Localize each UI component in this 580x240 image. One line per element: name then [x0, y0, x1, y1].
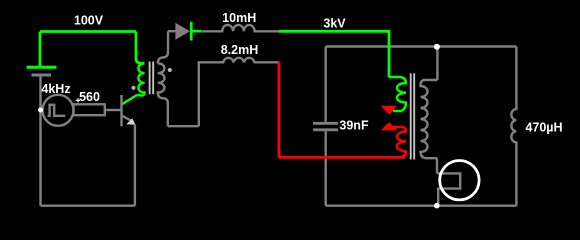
- wire top rail right section: [326, 45, 517, 47]
- wire T2 secondary top to rail: [436, 47, 438, 81]
- wire battery negative down: [39, 75, 41, 110]
- wire battery positive up: [39, 32, 42, 68]
- transistor Q1 emitter lead: [122, 115, 133, 121]
- diode D1 cathode bar: [190, 22, 193, 41]
- transformer T1 secondary winding (gray): [158, 63, 168, 126]
- capacitor C1 bottom lead: [325, 131, 327, 206]
- transistor Q1 emitter arrow: [126, 118, 135, 124]
- voltage source V1 100V bottom plate: [32, 74, 52, 77]
- capacitor C1 top plate: [313, 122, 338, 125]
- capacitor C1 bottom plate: [313, 128, 338, 131]
- wire left rail down: [39, 110, 41, 206]
- transformer T2 secondary winding (gray): [421, 80, 438, 158]
- label 3kV: [323, 17, 346, 31]
- transformer T2 core: [410, 73, 412, 159]
- label 8.2mH: [221, 43, 259, 57]
- capacitor C1 top lead: [325, 47, 327, 122]
- transistor Q1 base bar: [120, 95, 122, 126]
- wire rail down to transformer T1 primary: [136, 32, 145, 64]
- spark plug body circle: [440, 161, 479, 200]
- label 470uH: [525, 121, 562, 135]
- wire diode cathode: [191, 30, 201, 33]
- transformer T1 core: [149, 62, 151, 95]
- diode D1 triangle: [175, 23, 190, 40]
- spark plug electrode: [437, 173, 460, 205]
- square wave source VS2 circle: [43, 95, 74, 126]
- spark gap SG1 top arrow: [381, 106, 397, 115]
- inductor L1 10mH: [201, 25, 279, 31]
- inductor L3 470uH branch: [511, 47, 516, 206]
- label 100V: [74, 14, 104, 28]
- svg-text:8.2mH: 8.2mH: [221, 43, 259, 57]
- svg-text:4kHz: 4kHz: [41, 82, 70, 96]
- junction node bottom: [434, 203, 440, 209]
- svg-text:39nF: 39nF: [339, 119, 369, 133]
- svg-text:3kV: 3kV: [323, 17, 346, 31]
- inductor L2 8.2mH: [199, 58, 279, 126]
- transformer T1 secondary polarity dot: [168, 68, 172, 72]
- label 4kHz: [41, 82, 70, 96]
- square wave glyph: [48, 105, 66, 116]
- spark gap SG1 bottom arrow: [381, 122, 397, 130]
- junction node source left post: [38, 108, 43, 113]
- svg-text:100V: 100V: [74, 14, 104, 28]
- diode D1 anode lead: [168, 30, 175, 32]
- wire red from L2 down: [277, 62, 280, 158]
- wire emitter down: [134, 125, 136, 206]
- label 39nF: [339, 119, 369, 133]
- wire T1 primary to transistor collector: [122, 95, 137, 104]
- wire T1 secondary top to diode: [158, 31, 168, 63]
- svg-text:470µH: 470µH: [525, 121, 562, 135]
- label 10mH: [222, 11, 256, 25]
- wire 100V top rail: [40, 30, 136, 33]
- voltage source V1 100V top plate: [27, 66, 57, 69]
- svg-text:560: 560: [79, 90, 100, 104]
- wire resistor to base: [105, 109, 121, 111]
- junction node top right: [434, 44, 440, 50]
- wire bottom left rail: [41, 204, 135, 206]
- transformer T2 primary upper winding (green): [389, 77, 406, 111]
- transformer T1 primary winding (green): [137, 63, 144, 95]
- wire bottom rail right section: [326, 204, 517, 206]
- resistor R1 560 box: [74, 104, 105, 115]
- wire T1 secondary bottom to L2: [168, 125, 199, 127]
- svg-text:10mH: 10mH: [222, 11, 256, 25]
- transformer T2 primary lower winding (red): [393, 127, 406, 157]
- wire red horizontal to T2 primary bottom: [279, 156, 405, 159]
- wire T2 secondary bottom to spark plug: [436, 158, 438, 173]
- transformer T1 primary polarity dot: [131, 86, 135, 90]
- label 560: [79, 90, 100, 104]
- plus sign of source: [76, 98, 80, 102]
- wire 3kV (green): [279, 31, 389, 77]
